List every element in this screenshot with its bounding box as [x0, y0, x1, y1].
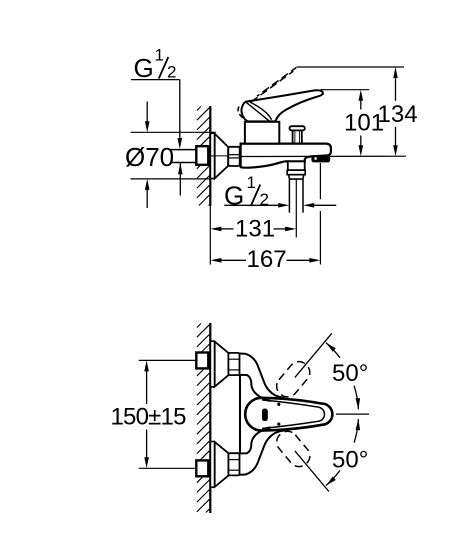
supply pipe square block view1 [196, 146, 208, 165]
spout outlet extension line (167) [319, 163, 321, 265]
union hex nut view2 bottom [228, 453, 239, 475]
lever swing dashed arc view1 [238, 107, 243, 118]
faucet body view1 [241, 144, 331, 168]
G 1/2 leader line top [131, 80, 183, 196]
escutcheon flange view2 bottom [210, 442, 214, 488]
lever handle view1 [241, 90, 323, 121]
supply pipe behind wall view1 [171, 150, 197, 163]
shower hose lines [289, 179, 303, 213]
faucet body view2 (tubes + back edge) [240, 354, 285, 398]
svg-text:131: 131 [235, 216, 275, 243]
body back edge at wall view2 [239, 375, 241, 454]
wall extension line view1 (to 131/167 dims) [209, 206, 211, 265]
lever sculpt line 1 [246, 102, 269, 121]
lever top view (solid) [245, 398, 332, 431]
raised lever dashed position view1 [251, 71, 293, 102]
svg-text:167: 167 [247, 246, 287, 273]
supply square blocks view2 [196, 353, 208, 477]
svg-text:50°: 50° [332, 360, 368, 387]
150 +/-15 dimension line [144, 360, 149, 468]
101 dimension [359, 90, 364, 157]
horizontal reference line view2 [336, 413, 369, 415]
lever top view inner contour [262, 400, 325, 429]
167 dimension [210, 258, 320, 263]
lever sculpt line 2 [250, 102, 272, 120]
131 dimension [210, 227, 296, 232]
lever rotated 50deg dashed (up) [273, 358, 314, 402]
134 dimension [393, 67, 398, 156]
svg-text:134: 134 [378, 101, 418, 128]
body internal line (spout underside) [241, 155, 406, 157]
svg-text:150±15: 150±15 [111, 404, 187, 431]
50deg arc up (broken behind text) [354, 386, 358, 410]
50deg arc down (broken behind text) [354, 419, 358, 443]
escutcheon cone view2 bottom [215, 442, 229, 487]
union hex nut view2 top [228, 353, 239, 375]
escutcheon flange view1 [210, 133, 214, 178]
aerator (mousseur) block [312, 156, 330, 161]
escutcheon cone view2 top [215, 342, 229, 387]
shower hose nut view1 [287, 170, 305, 179]
escutcheon cone view1 [215, 134, 228, 179]
extension line (101, lever top) [321, 89, 370, 91]
union hex nut view1 [211, 147, 240, 166]
lever rotated 50deg dashed (down) [273, 427, 314, 471]
lever inner contour wedges [263, 399, 271, 401]
diverter knob view1 [290, 126, 305, 143]
50deg centreline up [295, 333, 332, 377]
G 1/2 shower dimension arrows [224, 203, 336, 208]
wall section view2 (hatched) [197, 323, 210, 513]
svg-text:Ø70: Ø70 [125, 142, 174, 172]
hose centre / 131 extension line [295, 179, 297, 237]
lever grip dark mark [262, 409, 268, 422]
150 +/-15 extension lines [139, 360, 201, 468]
shower outlet stub view1 [288, 161, 305, 170]
diameter 70 dimension [131, 102, 216, 209]
cartridge housing under lever view1 [245, 122, 279, 144]
50deg centreline down [295, 451, 329, 492]
svg-text:50°: 50° [332, 447, 368, 474]
escutcheon flange view2 top [210, 341, 214, 387]
rotation marks on lever edges [277, 403, 280, 406]
wall section view1 (hatched) [197, 106, 210, 206]
extension line top (134, raised lever) [297, 66, 405, 68]
